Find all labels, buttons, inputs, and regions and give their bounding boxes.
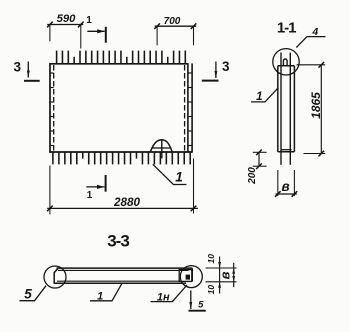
svg-text:в: в	[282, 179, 290, 194]
svg-text:5: 5	[198, 300, 204, 311]
svg-text:5: 5	[24, 286, 32, 301]
svg-text:1: 1	[256, 91, 262, 103]
svg-text:700: 700	[164, 16, 181, 27]
svg-text:3-3: 3-3	[107, 232, 129, 251]
svg-text:2880: 2880	[113, 196, 141, 209]
svg-text:4: 4	[311, 26, 318, 38]
svg-text:10: 10	[206, 285, 216, 295]
svg-text:1: 1	[175, 170, 183, 185]
svg-text:1н: 1н	[157, 291, 170, 303]
svg-text:10: 10	[206, 254, 216, 264]
svg-text:в: в	[217, 271, 232, 279]
svg-text:1: 1	[87, 190, 93, 201]
svg-text:1: 1	[86, 15, 92, 26]
svg-text:1-1: 1-1	[277, 20, 296, 37]
svg-text:200: 200	[247, 167, 258, 185]
svg-text:590: 590	[57, 13, 77, 25]
svg-text:1: 1	[97, 290, 103, 302]
svg-text:3: 3	[222, 59, 230, 74]
svg-text:3: 3	[14, 60, 22, 75]
svg-text:1865: 1865	[309, 92, 323, 119]
